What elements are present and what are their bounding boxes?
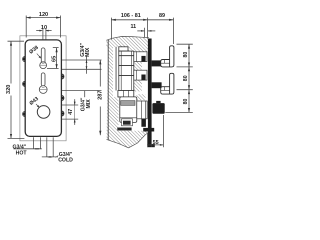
svg-text:MIX: MIX xyxy=(85,47,91,57)
dim 47 lines xyxy=(62,104,78,106)
knob black xyxy=(152,103,164,114)
svg-text:G3/4": G3/4" xyxy=(12,145,26,151)
svg-text:120: 120 xyxy=(39,12,48,18)
trim plate section xyxy=(148,39,152,148)
dim text 80 x3 xyxy=(183,52,189,58)
body step band xyxy=(118,91,134,97)
svg-text:80: 80 xyxy=(183,52,189,58)
valve outer wall line xyxy=(115,47,117,91)
mix port line 1 xyxy=(62,59,102,61)
fixing tab right 1 xyxy=(62,74,64,79)
svg-text:HOT: HOT xyxy=(16,151,28,157)
svg-text:COLD: COLD xyxy=(58,158,73,164)
dim 65 xyxy=(56,48,58,69)
lever 1 base circle xyxy=(40,62,47,69)
wall hatch top band xyxy=(106,36,149,46)
volume lever 2 slot xyxy=(41,73,45,86)
body band 4 xyxy=(119,76,134,91)
svg-text:10: 10 xyxy=(41,25,47,31)
label G3/4 COLD xyxy=(55,156,58,158)
svg-text:55: 55 xyxy=(153,140,159,146)
bottom pipes/labels xyxy=(14,137,59,157)
thermostat cartridge xyxy=(120,97,137,123)
dim 89 xyxy=(148,19,174,21)
svg-text:MIX: MIX xyxy=(86,99,92,109)
svg-text:47: 47 xyxy=(68,109,74,115)
volume lever 1 slot xyxy=(41,48,45,64)
label G3/4 MIX top xyxy=(80,43,86,57)
dim text 320 xyxy=(6,85,12,94)
cold dim line xyxy=(42,156,58,158)
plate bottom tip xyxy=(152,144,155,147)
wall top break line xyxy=(106,36,149,40)
handle 2 lever xyxy=(161,73,174,94)
bottom valve black square xyxy=(141,119,146,127)
body top cap xyxy=(119,47,128,51)
mix port line 3 xyxy=(62,89,102,91)
svg-text:80: 80 xyxy=(183,75,189,81)
svg-text:80: 80 xyxy=(183,99,189,105)
fixing tab right 2 xyxy=(62,96,64,101)
fixing tab right 3 xyxy=(62,111,64,116)
hot pipe xyxy=(33,137,35,149)
handle stem 1 xyxy=(152,60,162,66)
handle stem 2 xyxy=(152,82,162,88)
dim text 287 xyxy=(98,91,104,100)
small gauge arrows between mix lines xyxy=(86,56,88,74)
svg-text:320: 320 xyxy=(6,85,12,94)
bottom outlet stub xyxy=(143,128,154,132)
hot dim line xyxy=(14,148,42,150)
body bottom dark bar xyxy=(117,128,131,131)
svg-text:89: 89 xyxy=(159,13,165,19)
cold pipe xyxy=(46,137,48,157)
mix port line 2 xyxy=(62,68,102,70)
label G3/4 MIX lower xyxy=(81,97,87,111)
wall hatch right fill top xyxy=(128,47,149,52)
body upper chamber xyxy=(119,51,134,56)
svg-text:11: 11 xyxy=(130,24,136,30)
dim text 47 xyxy=(68,109,74,115)
controls xyxy=(28,45,50,118)
boss 2 xyxy=(134,70,147,80)
fixing tab left 3 xyxy=(23,112,25,117)
wall hatch between boss1 boss2 xyxy=(134,62,142,70)
fixing tab left 2 xyxy=(23,81,25,86)
wall hatch between boss2 boss3 xyxy=(134,80,142,91)
dim 120 xyxy=(26,17,60,19)
right 80 dims xyxy=(177,43,193,45)
box outline xyxy=(25,40,61,136)
left dims xyxy=(8,16,102,139)
svg-text:106 - 81: 106 - 81 xyxy=(121,13,141,19)
dim 10 xyxy=(36,30,41,32)
label D43 xyxy=(29,96,41,107)
dim 55 xyxy=(147,144,163,146)
thermostat knob circle xyxy=(37,106,50,119)
body band 3 xyxy=(119,66,134,76)
dim text 65 xyxy=(52,56,58,62)
wall hatch left column xyxy=(107,47,114,142)
wall hatch bottom band xyxy=(113,131,149,148)
dim 11 xyxy=(137,30,144,32)
wall hatch patch xyxy=(137,94,146,100)
trim plate outline (front view) xyxy=(20,36,66,141)
body band 2 xyxy=(119,56,134,66)
boss 3 thermostat xyxy=(137,101,147,119)
label D38 xyxy=(28,45,40,56)
RIGHT VIEW xyxy=(106,36,149,147)
fixing tab left 1 xyxy=(23,57,25,62)
wall hatch lower-left strip xyxy=(113,97,119,131)
boss 1 xyxy=(134,52,147,62)
dim 320 xyxy=(10,41,12,83)
dim 106-81 xyxy=(111,19,147,21)
dim 287 xyxy=(99,60,101,87)
handle 1 lever xyxy=(161,46,174,67)
svg-text:287: 287 xyxy=(98,91,104,100)
svg-text:65: 65 xyxy=(52,56,58,62)
wall left edge xyxy=(107,40,109,140)
lever 2 base circle xyxy=(39,86,47,94)
wall bottom break line xyxy=(107,133,149,148)
